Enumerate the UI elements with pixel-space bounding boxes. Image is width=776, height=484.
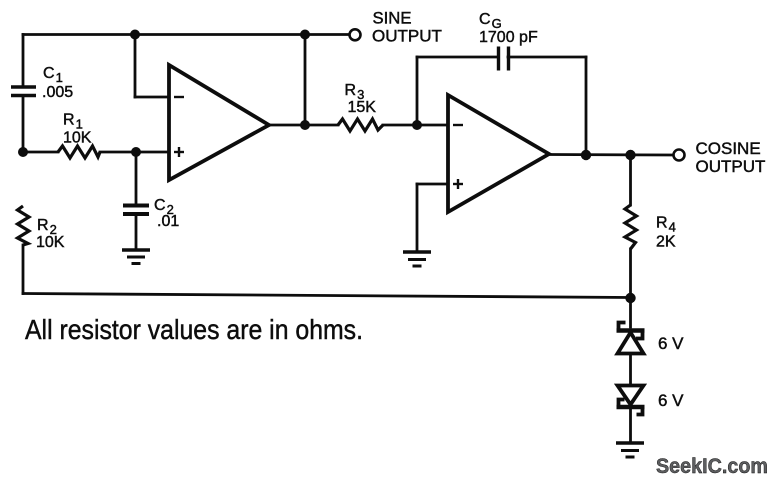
op-amp U1 [169,65,269,180]
svg-text:.01: .01 [157,213,179,230]
resistor R1 [58,146,100,158]
svg-text:All resistor values are in ohm: All resistor values are in ohms. [25,314,363,345]
terminal: SINE OUTPUT [350,29,361,40]
wire: U2 plus input horizontal [417,183,448,186]
svg-text:R1: R1 [63,112,83,132]
capacitor C2 [123,206,149,215]
ground (U2 non-inverting input) [403,252,431,266]
junction: U2 output / R4 [625,150,635,160]
svg-text:6 V: 6 V [658,334,684,353]
wire: CG loop top-right [508,56,586,59]
capacitor C1 [11,87,36,96]
wire: U1 output to R3 [269,124,338,127]
junction: top rail / sine feedback [300,30,310,40]
wire: between zeners D1 and D2 [629,354,632,385]
svg-text:10K: 10K [63,130,92,147]
svg-text:CG: CG [479,11,502,31]
wire: U1 inverting branch horizontal [135,96,169,99]
svg-text:OUTPUT: OUTPUT [696,157,766,176]
wire: CG loop right vertical [585,57,588,155]
svg-text:C1: C1 [43,65,63,85]
wire: node A row with R1 to op-amp U1 + input [23,151,58,154]
label: CG value [479,11,538,46]
wire: node B to zener D1 [629,298,632,327]
svg-text:OUTPUT: OUTPUT [372,27,442,46]
resistor R2 [18,206,30,245]
label: R2 value [36,217,65,251]
junction: top rail / U1 inverting branch [130,30,140,40]
wire: sine feedback vertical [304,35,307,126]
op-amp U2 [448,95,549,212]
svg-text:10K: 10K [36,234,65,251]
junction: U2 output / CG [581,150,591,160]
label: C1 value [42,65,73,101]
svg-text:COSINE: COSINE [696,139,761,158]
svg-text:SINE: SINE [373,9,412,28]
junction: U2 inverting input / CG [412,120,422,130]
wire: C2 top lead [135,152,138,203]
wire: U1 inverting branch vertical [134,35,137,98]
svg-text:15K: 15K [348,99,377,116]
label: R1 value [63,112,92,147]
wire: U2 output to COSINE terminal [549,153,673,156]
svg-text:.005: .005 [42,84,73,101]
junction: R1 / C2 / U1 plus input [131,147,141,157]
resistor R4 [625,205,637,249]
svg-text:SeekIC.com: SeekIC.com [656,455,768,478]
capacitor CG [499,47,509,71]
zener diode D1 (6 V) [617,323,645,354]
wire: R3 to U2 inverting input [383,124,448,127]
label: R3 value [345,82,377,116]
wire: R2 bottom lead down the left side [22,245,25,294]
label: SINE OUTPUT [372,9,442,46]
label: COSINE OUTPUT [696,139,766,176]
wire: C1 bottom to node A [22,97,25,152]
junction: bottom rail / R4 / zeners (node B) [625,293,635,303]
wire: CG loop top-left [417,56,496,59]
wire: CG loop left vertical [416,57,419,125]
wire: top rail from left corner to SINE terminal [23,33,348,36]
svg-text:R4: R4 [656,215,676,235]
wire: R1 right lead to U1 plus input [100,151,169,154]
svg-text:6 V: 6 V [658,391,684,410]
wire: bottom rail [23,294,630,298]
terminal: COSINE OUTPUT [674,150,685,161]
label: C2 value [154,197,179,230]
wire: C2 bottom lead to ground [135,216,138,250]
junction: node A (C1, R1, R2) [18,147,28,157]
ground (below zeners) [616,443,644,457]
svg-text:1700 pF: 1700 pF [479,29,538,46]
wire: U2 plus input to ground [416,184,419,252]
junction: U1 output / sine feedback [300,120,310,130]
svg-text:2K: 2K [656,234,676,251]
zener diode D2 (6 V) [617,386,645,415]
wire: zener D2 to ground [629,408,632,443]
wire: R4 bottom lead [629,249,632,298]
wire: left vertical (top rail to C1) [22,35,25,86]
label: R4 value [656,215,676,251]
ground (under C2) [122,250,150,264]
resistor R3 [338,119,383,131]
wire: R4 top lead [629,155,632,205]
